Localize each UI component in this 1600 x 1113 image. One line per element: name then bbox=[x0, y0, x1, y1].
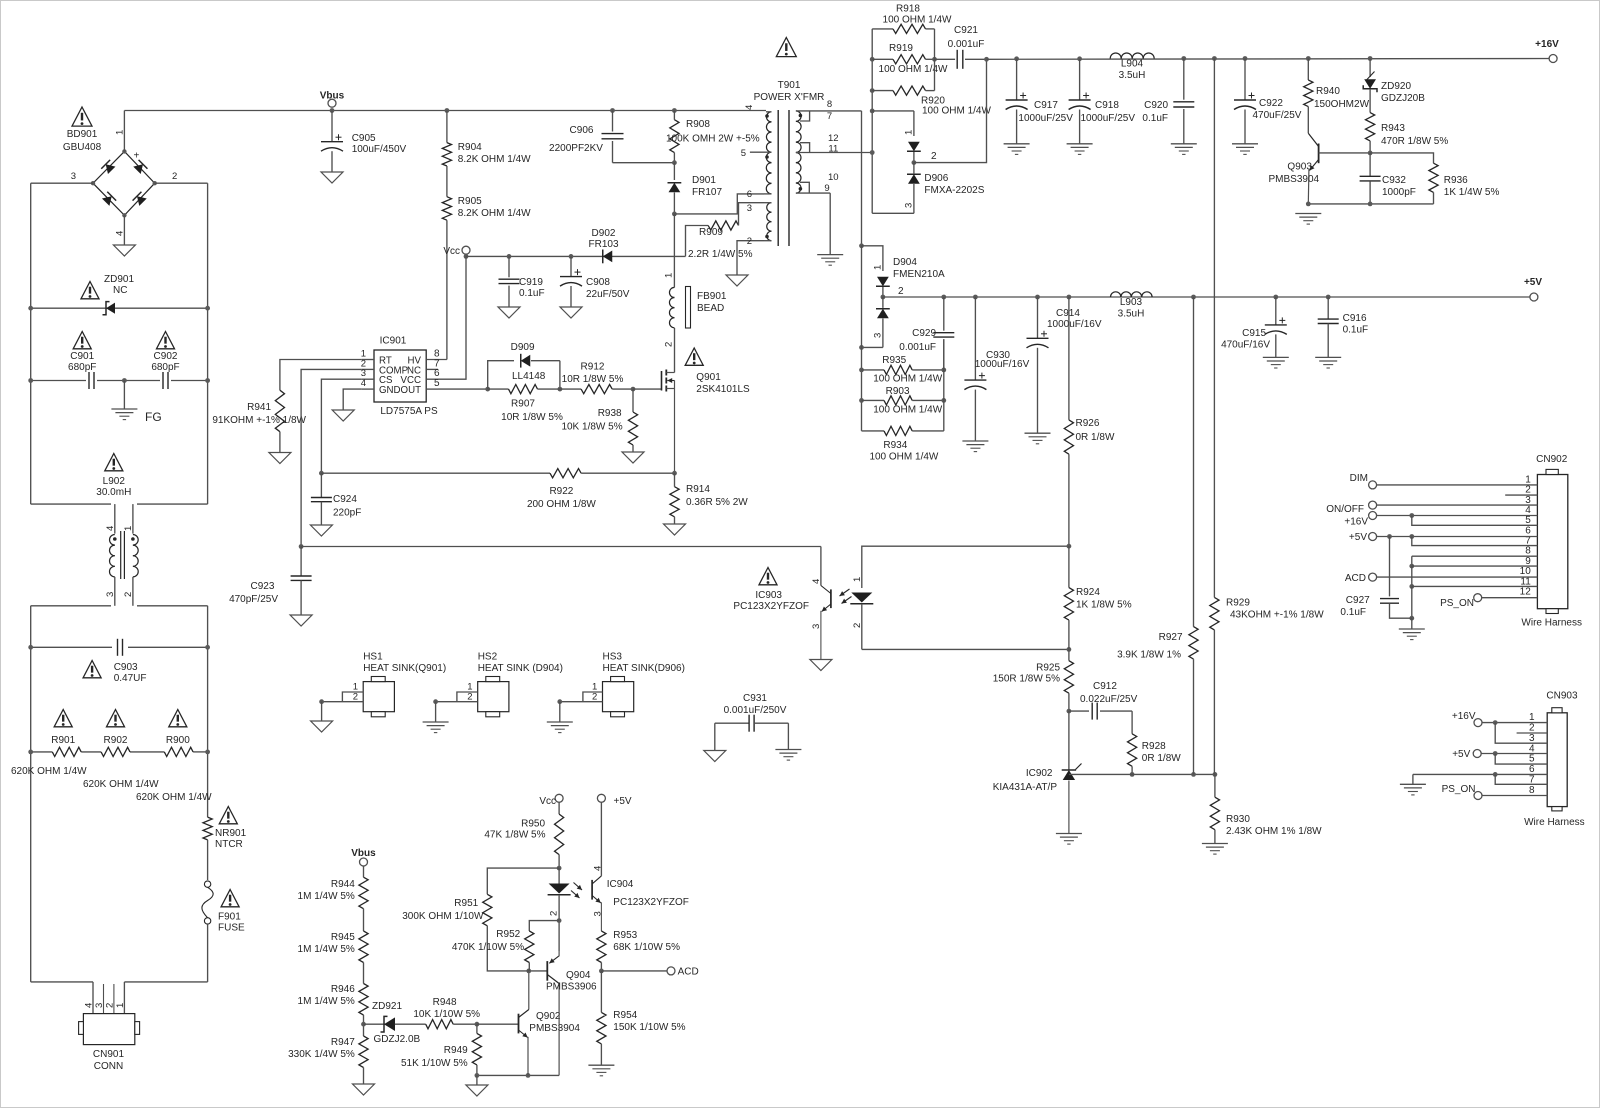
CN903 pin 7 number bbox=[1529, 775, 1535, 786]
wire CN902 pin7 link bbox=[1412, 537, 1538, 546]
svg-text:R948: R948 bbox=[433, 997, 457, 1008]
svg-text:C919: C919 bbox=[519, 277, 543, 288]
svg-text:R928: R928 bbox=[1142, 741, 1166, 752]
wire IC902 ref row bbox=[1069, 772, 1217, 777]
resistor R938 bbox=[561, 389, 637, 452]
svg-text:R947: R947 bbox=[331, 1037, 355, 1048]
CN902 pin 7 number bbox=[1525, 536, 1531, 547]
svg-text:3: 3 bbox=[904, 203, 915, 208]
CN902 pin 5 number bbox=[1525, 515, 1531, 526]
wire CN902 pin2 stub bbox=[1505, 494, 1537, 496]
resistor R918 bbox=[872, 4, 952, 34]
svg-text:T901: T901 bbox=[778, 80, 801, 91]
bridge pin 4 label bbox=[115, 231, 126, 236]
svg-text:330K 1/4W 5%: 330K 1/4W 5% bbox=[288, 1049, 355, 1060]
svg-text:FG: FG bbox=[145, 410, 162, 424]
svg-text:1000uF/25V: 1000uF/25V bbox=[1018, 113, 1073, 124]
node D906 pin2 bbox=[912, 151, 938, 165]
wire left box edge bbox=[30, 183, 32, 504]
svg-text:470pF/25V: 470pF/25V bbox=[229, 594, 278, 605]
ground below IC901 pin4 bbox=[332, 410, 354, 421]
diode D906 upper bbox=[904, 130, 921, 152]
svg-text:2: 2 bbox=[104, 1003, 115, 1008]
CN901 pin 4 label bbox=[84, 1003, 95, 1008]
svg-text:FB901: FB901 bbox=[697, 291, 727, 302]
wire DIM to CN902 pin1 bbox=[1377, 484, 1538, 486]
resistor R950 bbox=[484, 814, 563, 870]
svg-text:22uF/50V: 22uF/50V bbox=[586, 289, 630, 300]
svg-text:0.1uF: 0.1uF bbox=[519, 288, 545, 299]
wire R949 gnd stem bbox=[476, 1075, 478, 1085]
svg-text:+5V: +5V bbox=[1349, 532, 1367, 543]
capacitor C931 bbox=[715, 693, 789, 751]
svg-text:Q901: Q901 bbox=[696, 372, 721, 383]
wire R901 row bbox=[28, 750, 210, 755]
svg-text:6: 6 bbox=[1529, 764, 1535, 775]
resistor R954 bbox=[597, 971, 686, 1065]
svg-text:8.2K OHM 1/4W: 8.2K OHM 1/4W bbox=[458, 208, 531, 219]
svg-text:PC123X2YFZOF: PC123X2YFZOF bbox=[613, 897, 689, 908]
inductor L902 labels bbox=[96, 476, 131, 498]
wire IC904 LED to R952 bbox=[529, 921, 559, 931]
ground below C919 bbox=[498, 307, 520, 318]
capacitor C901 bbox=[68, 351, 96, 389]
svg-text:R935: R935 bbox=[882, 355, 906, 366]
IC901 part number bbox=[380, 406, 438, 417]
svg-text:Q902: Q902 bbox=[536, 1011, 561, 1022]
svg-text:4: 4 bbox=[84, 1003, 95, 1008]
svg-text:3: 3 bbox=[71, 171, 76, 182]
T901 pin 4 stub bbox=[744, 105, 772, 112]
svg-text:R919: R919 bbox=[889, 43, 913, 54]
T901 pin 12 stub bbox=[800, 133, 839, 153]
svg-text:620K OHM 1/4W: 620K OHM 1/4W bbox=[83, 779, 159, 790]
node +16V CN902 bbox=[1344, 512, 1376, 528]
svg-text:2.43K OHM 1% 1/8W: 2.43K OHM 1% 1/8W bbox=[1226, 826, 1322, 837]
wire D901 junction to FB901 bbox=[673, 214, 675, 288]
capacitor C930 bbox=[964, 295, 1029, 441]
svg-text:C901: C901 bbox=[70, 351, 94, 362]
connector CN901 pins bbox=[93, 982, 124, 1014]
svg-text:0.1uF: 0.1uF bbox=[1340, 607, 1366, 618]
svg-text:0.022uF/25V: 0.022uF/25V bbox=[1080, 694, 1138, 705]
svg-text:ZD921: ZD921 bbox=[372, 1001, 402, 1012]
svg-text:470uF/16V: 470uF/16V bbox=[1221, 340, 1270, 351]
svg-text:100K OMH 2W +-5%: 100K OMH 2W +-5% bbox=[666, 134, 760, 145]
svg-text:100 OHM 1/4W: 100 OHM 1/4W bbox=[873, 405, 942, 416]
diode D909 branch bbox=[488, 342, 563, 392]
svg-text:100 OHM 1/4W: 100 OHM 1/4W bbox=[883, 14, 952, 25]
wire CN903 gnd stem bbox=[1412, 774, 1414, 784]
svg-text:R905: R905 bbox=[458, 196, 482, 207]
wire +5V rail bbox=[883, 296, 1534, 298]
wire CN902 pin8 line bbox=[1412, 555, 1538, 557]
svg-text:L903: L903 bbox=[1120, 297, 1143, 308]
capacitor C908 bbox=[560, 254, 630, 307]
IC901 title bbox=[380, 336, 407, 347]
svg-text:R950: R950 bbox=[521, 819, 545, 830]
warning triangle ZD901 bbox=[81, 282, 99, 299]
svg-text:HS3: HS3 bbox=[603, 652, 623, 663]
svg-text:CN901: CN901 bbox=[93, 1049, 125, 1060]
heat sink HS2 bbox=[433, 652, 563, 717]
svg-text:1: 1 bbox=[664, 273, 675, 278]
CN903 pin 3 number bbox=[1529, 733, 1535, 744]
svg-text:4: 4 bbox=[744, 105, 755, 110]
svg-text:R938: R938 bbox=[598, 408, 622, 419]
svg-text:C929: C929 bbox=[912, 328, 936, 339]
wire pin2 to COMP rail bbox=[299, 369, 362, 548]
wire C903 row bbox=[28, 645, 210, 650]
svg-text:C912: C912 bbox=[1093, 681, 1117, 692]
ground below C924 bbox=[310, 525, 332, 536]
svg-text:2SK4101LS: 2SK4101LS bbox=[696, 384, 750, 395]
capacitor C932 bbox=[1360, 153, 1416, 204]
svg-text:2: 2 bbox=[1529, 723, 1535, 734]
svg-text:1: 1 bbox=[852, 577, 863, 582]
warning triangle R900 bbox=[169, 710, 187, 727]
diode D906 lower bbox=[904, 163, 985, 214]
op-amp U IC901 body bbox=[374, 350, 426, 402]
wire +16V rail bbox=[987, 58, 1554, 61]
zener diode ZD920 bbox=[1363, 56, 1425, 104]
svg-text:100 OHM 1/4W: 100 OHM 1/4W bbox=[869, 452, 938, 463]
svg-text:0.47UF: 0.47UF bbox=[114, 673, 147, 684]
capacitor C919 bbox=[499, 254, 545, 307]
IC901 pin7 stub bbox=[426, 358, 440, 369]
Q901 labels bbox=[696, 372, 750, 395]
svg-text:1M 1/4W 5%: 1M 1/4W 5% bbox=[298, 996, 355, 1007]
wire Vcc line bbox=[466, 255, 686, 257]
resistor R946 bbox=[298, 963, 369, 1016]
capacitor C923 bbox=[229, 547, 312, 616]
wire bridge pin3 left bbox=[31, 182, 93, 184]
diode D901 bbox=[668, 163, 723, 214]
svg-text:R951: R951 bbox=[454, 898, 478, 909]
svg-text:12: 12 bbox=[1520, 586, 1532, 597]
ground below IC903 bbox=[810, 660, 832, 671]
wire pin8 down to D904 junction bbox=[859, 111, 864, 248]
svg-text:CONN: CONN bbox=[94, 1061, 123, 1072]
CN903 pin 1 number bbox=[1529, 712, 1535, 723]
resistor R900 bbox=[164, 735, 193, 757]
svg-text:ACD: ACD bbox=[678, 967, 699, 978]
capacitor C903 bbox=[114, 639, 147, 684]
wire gate node bbox=[631, 387, 662, 392]
resistor R926 bbox=[1064, 295, 1115, 549]
svg-text:1: 1 bbox=[873, 265, 884, 270]
wire HS1 ground stem bbox=[321, 702, 323, 721]
svg-text:2: 2 bbox=[592, 692, 597, 703]
wire R929 column top bbox=[1212, 56, 1217, 61]
warning triangle F901 bbox=[221, 890, 239, 907]
resistor R908 bbox=[666, 108, 760, 165]
svg-text:2: 2 bbox=[467, 692, 472, 703]
svg-text:3: 3 bbox=[811, 624, 822, 629]
wire +5V to CN902 pin6 bbox=[1377, 534, 1538, 539]
ground below R930 bbox=[1202, 844, 1228, 855]
wire CN902 pin9 link bbox=[1409, 556, 1537, 568]
svg-text:PMBS3904: PMBS3904 bbox=[529, 1023, 580, 1034]
svg-text:R926: R926 bbox=[1076, 418, 1100, 429]
wire C901 row bbox=[28, 378, 210, 383]
resistor R914 bbox=[670, 473, 748, 524]
svg-text:2: 2 bbox=[123, 592, 134, 597]
transistor Q904 bbox=[526, 951, 597, 1075]
warning triangle C902 bbox=[156, 332, 174, 349]
svg-text:C927: C927 bbox=[1346, 595, 1370, 606]
svg-text:100 OHM 1/4W: 100 OHM 1/4W bbox=[873, 374, 942, 385]
inductor L902 bbox=[109, 504, 138, 606]
IC901 pin5 stub bbox=[426, 378, 440, 389]
svg-text:IC901: IC901 bbox=[380, 336, 407, 347]
svg-text:9: 9 bbox=[824, 183, 829, 194]
node PS_ON CN902 bbox=[1440, 594, 1482, 609]
wire D906 pin2 to C921 junction bbox=[914, 57, 989, 163]
svg-text:GND: GND bbox=[379, 385, 401, 396]
svg-text:C916: C916 bbox=[1343, 313, 1367, 324]
ground below Q903 bbox=[1295, 214, 1321, 225]
node Vbus bbox=[320, 91, 345, 113]
svg-text:R901: R901 bbox=[51, 735, 75, 746]
svg-text:1: 1 bbox=[115, 1003, 126, 1008]
svg-text:PS_ON: PS_ON bbox=[1440, 598, 1474, 609]
wire PS_ON to CN903 pin8 bbox=[1482, 795, 1547, 797]
capacitor C914 bbox=[1027, 295, 1102, 434]
transformer T901 labels bbox=[754, 80, 825, 103]
capacitor C922 bbox=[1234, 56, 1302, 144]
wire F901 to box corner bbox=[207, 924, 209, 982]
svg-text:4: 4 bbox=[105, 526, 116, 531]
ground below C931 right bbox=[775, 750, 801, 761]
fuse F901 bbox=[202, 881, 245, 934]
svg-text:100 OHM 1/4W: 100 OHM 1/4W bbox=[879, 64, 948, 75]
svg-text:150K 1/10W 5%: 150K 1/10W 5% bbox=[613, 1022, 685, 1033]
svg-text:R941: R941 bbox=[247, 402, 271, 413]
svg-text:R914: R914 bbox=[686, 484, 710, 495]
ground below T901 pin2 bbox=[726, 275, 748, 286]
svg-text:L904: L904 bbox=[1121, 59, 1144, 70]
svg-text:PMBS3906: PMBS3906 bbox=[546, 982, 597, 993]
svg-text:2: 2 bbox=[852, 623, 863, 628]
svg-text:5: 5 bbox=[741, 148, 746, 159]
svg-text:D902: D902 bbox=[592, 228, 616, 239]
L902 pin 1 label bbox=[123, 526, 134, 531]
svg-text:HEAT SINK (D904): HEAT SINK (D904) bbox=[478, 663, 563, 674]
CN902 pin 2 number bbox=[1525, 485, 1531, 496]
resistor R948 bbox=[413, 997, 480, 1029]
wire CN903 pin2 stub bbox=[1517, 732, 1548, 734]
ground below C922 bbox=[1232, 144, 1258, 155]
shunt regulator IC902 bbox=[993, 711, 1082, 833]
svg-text:FR107: FR107 bbox=[692, 187, 722, 198]
svg-text:F901: F901 bbox=[218, 912, 241, 923]
svg-text:HS1: HS1 bbox=[363, 652, 383, 663]
svg-text:1: 1 bbox=[123, 526, 134, 531]
svg-text:2: 2 bbox=[353, 692, 358, 703]
ground below R954 bbox=[588, 1065, 614, 1076]
svg-text:R934: R934 bbox=[883, 440, 907, 451]
svg-text:CN903: CN903 bbox=[1546, 691, 1578, 702]
connector CN903 body bbox=[1547, 708, 1567, 811]
diode D904 upper bbox=[873, 257, 946, 286]
svg-text:C932: C932 bbox=[1382, 175, 1406, 186]
svg-text:150R 1/8W 5%: 150R 1/8W 5% bbox=[993, 674, 1060, 685]
resistor R901 bbox=[51, 735, 81, 757]
wire pin6 to Vcc bbox=[438, 256, 466, 379]
bridge pin 1 label bbox=[115, 130, 126, 135]
wire bridge pin4 to ground bbox=[123, 215, 125, 245]
wire lower box bottom edge bbox=[31, 981, 208, 983]
connector CN902 body bbox=[1537, 469, 1567, 613]
capacitor C920 bbox=[1142, 56, 1194, 144]
wire Q904 emitter up bbox=[558, 921, 560, 951]
wire Q903 emitter row bbox=[1306, 202, 1434, 207]
svg-text:1000pF: 1000pF bbox=[1382, 187, 1416, 198]
svg-text:91KOHM +-1% 1/8W: 91KOHM +-1% 1/8W bbox=[212, 415, 306, 426]
capacitor C929 bbox=[899, 295, 954, 370]
bridge pin 2 label bbox=[172, 171, 177, 182]
wire pin4 to ground bbox=[343, 389, 362, 410]
svg-text:10K 1/8W 5%: 10K 1/8W 5% bbox=[561, 422, 622, 433]
svg-text:PS_ON: PS_ON bbox=[1442, 784, 1476, 795]
svg-text:0.1uF: 0.1uF bbox=[1343, 325, 1369, 336]
svg-text:100 OHM 1/4W: 100 OHM 1/4W bbox=[922, 106, 991, 117]
wire ZD901 row bbox=[28, 306, 210, 311]
node +5V CN903 bbox=[1452, 749, 1481, 760]
wire COMP rail bbox=[301, 546, 821, 548]
svg-text:R944: R944 bbox=[331, 879, 355, 890]
ground CN902 bbox=[1399, 629, 1425, 640]
svg-text:8.2K OHM 1/4W: 8.2K OHM 1/4W bbox=[458, 154, 531, 165]
svg-text:R940: R940 bbox=[1316, 86, 1340, 97]
CN902 pin 10 number bbox=[1520, 566, 1532, 577]
svg-text:C922: C922 bbox=[1259, 98, 1283, 109]
svg-text:1: 1 bbox=[904, 130, 915, 135]
wire lower box top edge bbox=[31, 605, 208, 607]
svg-text:4: 4 bbox=[811, 579, 822, 584]
node +16V CN903 bbox=[1452, 711, 1482, 727]
wire D901 to T901 pin6 bbox=[672, 194, 764, 216]
svg-text:1: 1 bbox=[1529, 712, 1535, 723]
CN901 pin 1 label bbox=[115, 1003, 126, 1008]
svg-text:C914: C914 bbox=[1056, 308, 1080, 319]
diode D902 bbox=[588, 228, 618, 263]
svg-text:R952: R952 bbox=[496, 929, 520, 940]
svg-text:L902: L902 bbox=[103, 476, 126, 487]
wire R935 left vertical bbox=[861, 246, 863, 431]
svg-text:C902: C902 bbox=[154, 351, 178, 362]
warning triangle BD901 bbox=[72, 107, 92, 126]
CN901 labels bbox=[93, 1049, 125, 1072]
svg-text:OUT: OUT bbox=[401, 385, 422, 396]
wire pin1 to R941 bbox=[280, 360, 362, 391]
resistor R943 bbox=[1366, 89, 1449, 153]
svg-text:D906: D906 bbox=[924, 173, 948, 184]
svg-text:10K 1/10W 5%: 10K 1/10W 5% bbox=[413, 1009, 480, 1020]
resistor R909 bbox=[686, 203, 765, 260]
wire HS2 ground stem bbox=[435, 702, 437, 722]
node Vcc bottom bbox=[539, 794, 563, 814]
svg-text:2200PF2KV: 2200PF2KV bbox=[549, 143, 603, 154]
ground below T901 pin9 bbox=[817, 255, 843, 266]
svg-text:43KOHM +-1% 1/8W: 43KOHM +-1% 1/8W bbox=[1230, 610, 1324, 621]
CN903 pin 6 number bbox=[1529, 764, 1535, 775]
svg-text:100uF/450V: 100uF/450V bbox=[352, 144, 407, 155]
svg-text:150OHM2W: 150OHM2W bbox=[1314, 99, 1370, 110]
CN902 pin 9 number bbox=[1525, 556, 1531, 567]
svg-text:R922: R922 bbox=[549, 486, 573, 497]
R920 value label bbox=[922, 106, 991, 117]
svg-text:PC123X2YFZOF: PC123X2YFZOF bbox=[733, 601, 809, 612]
svg-text:ACD: ACD bbox=[1345, 573, 1366, 584]
node +5V bottom bbox=[597, 794, 632, 876]
svg-text:R912: R912 bbox=[581, 362, 605, 373]
FB901 pin2 label bbox=[664, 342, 675, 347]
svg-text:NTCR: NTCR bbox=[215, 839, 243, 850]
R902 value label bbox=[83, 779, 159, 790]
svg-text:Vcc: Vcc bbox=[539, 796, 556, 807]
svg-text:KIA431A-AT/P: KIA431A-AT/P bbox=[993, 782, 1058, 793]
ground below C930 bbox=[962, 441, 988, 452]
inductor L904 bbox=[1110, 53, 1154, 81]
heat sink HS1 bbox=[319, 652, 446, 717]
svg-text:Wire Harness: Wire Harness bbox=[1521, 618, 1582, 629]
warning triangle IC903 bbox=[759, 568, 777, 585]
resistor R951 bbox=[402, 868, 559, 971]
svg-text:HEAT SINK(Q901): HEAT SINK(Q901) bbox=[363, 663, 446, 674]
heat sink HS3 bbox=[557, 652, 685, 717]
CN901 pin 2 label bbox=[104, 1003, 115, 1008]
svg-text:2: 2 bbox=[549, 911, 560, 916]
svg-text:3.5uH: 3.5uH bbox=[1119, 70, 1146, 81]
resistor R941 bbox=[212, 390, 306, 452]
warning triangle NR901 bbox=[219, 807, 237, 824]
resistor R952 bbox=[452, 929, 534, 971]
wire pin3 to CS node bbox=[319, 379, 362, 475]
IC901 pin3 stub bbox=[361, 368, 374, 379]
svg-text:IC902: IC902 bbox=[1026, 768, 1053, 779]
connector CN901 body bbox=[79, 1014, 140, 1045]
ground below C917 bbox=[1004, 144, 1030, 155]
node ON/OFF bbox=[1326, 501, 1376, 515]
svg-text:0.36R 5% 2W: 0.36R 5% 2W bbox=[686, 497, 748, 508]
svg-text:Q904: Q904 bbox=[566, 970, 591, 981]
IC901 pin2 stub bbox=[361, 358, 374, 369]
resistor R925 bbox=[993, 649, 1074, 713]
svg-text:R929: R929 bbox=[1226, 598, 1250, 609]
warning triangle Q901 bbox=[685, 348, 703, 365]
svg-text:1000uF/16V: 1000uF/16V bbox=[975, 359, 1030, 370]
transistor Q902 bbox=[477, 971, 580, 1076]
svg-text:HEAT SINK(D906): HEAT SINK(D906) bbox=[603, 663, 685, 674]
T901 pin 11 line bbox=[796, 144, 872, 155]
resistor R940 bbox=[1304, 56, 1370, 110]
ground below C915 bbox=[1263, 357, 1289, 368]
wire D904 bottom corner bbox=[859, 345, 883, 350]
svg-text:3: 3 bbox=[105, 592, 116, 597]
T901 pin 9 line bbox=[796, 183, 830, 194]
svg-text:C920: C920 bbox=[1144, 100, 1168, 111]
svg-text:+5V: +5V bbox=[1524, 277, 1542, 288]
svg-text:11: 11 bbox=[828, 144, 838, 155]
wire PS_ON to CN902 pin12 bbox=[1482, 597, 1538, 599]
wire D906 top line bbox=[870, 109, 914, 137]
ground below R914 bbox=[664, 524, 686, 535]
svg-text:C921: C921 bbox=[954, 25, 978, 36]
diode D904 lower bbox=[873, 297, 890, 347]
wire ONOFF to CN902 pin3 bbox=[1377, 504, 1538, 506]
